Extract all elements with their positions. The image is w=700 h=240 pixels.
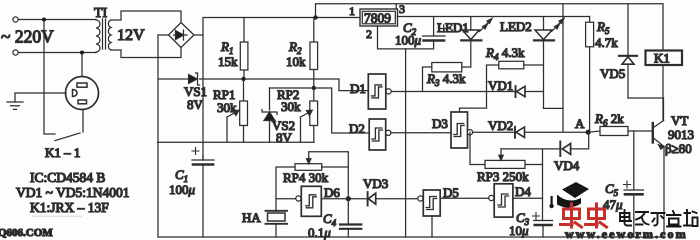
svg-text:RP3 250k: RP3 250k bbox=[477, 169, 529, 184]
svg-text:7809: 7809 bbox=[364, 11, 391, 26]
resistor R3 bbox=[423, 63, 471, 92]
svg-text:RP4 30k: RP4 30k bbox=[283, 170, 329, 185]
svg-text:VD5: VD5 bbox=[600, 66, 625, 81]
svg-text:30k: 30k bbox=[281, 99, 301, 114]
wire: socket top bbox=[81, 53, 83, 77]
terminal bottom bbox=[13, 50, 18, 55]
resistor R1 bbox=[240, 18, 248, 80]
diode VD1 bbox=[516, 86, 544, 97]
wire: DC+ column and top feed rail bbox=[203, 18, 360, 161]
svg-text:D4: D4 bbox=[515, 184, 531, 199]
resistor R2 bbox=[310, 18, 318, 89]
transistor VT 9013 bbox=[653, 98, 664, 237]
transformer core bbox=[102, 19, 104, 49]
switch K1-1 blade bbox=[55, 133, 80, 141]
svg-text:100μ: 100μ bbox=[169, 182, 196, 197]
wire: AC bottom line bbox=[18, 52, 96, 54]
svg-text:4.7k: 4.7k bbox=[595, 35, 618, 50]
svg-text:30k: 30k bbox=[217, 100, 237, 115]
potentiometer RP3 bbox=[470, 132, 543, 168]
resistor R4 bbox=[460, 61, 544, 112]
wire: D1 output line bbox=[391, 91, 515, 93]
wire: VD4 line / RP3 wiper line bbox=[501, 148, 560, 150]
gate D5 bbox=[418, 190, 489, 237]
wire: 7809 pin2 ground bbox=[378, 26, 434, 49]
capacitor C3 bbox=[533, 213, 553, 238]
svg-text:VD2: VD2 bbox=[488, 118, 513, 133]
svg-text:100μ: 100μ bbox=[395, 33, 422, 48]
watermark graduation cap bbox=[549, 182, 589, 208]
relay K1 bbox=[646, 51, 683, 122]
gate D4 bbox=[489, 184, 543, 217]
potentiometer RP2 bbox=[301, 88, 318, 142]
wire: pin3 stub to top rail bbox=[395, 4, 397, 9]
terminal top bbox=[13, 17, 18, 22]
svg-text:K1: K1 bbox=[654, 51, 670, 66]
wire: AC top line bbox=[18, 19, 96, 21]
svg-text:10μ: 10μ bbox=[509, 223, 529, 238]
watermark bug characters bbox=[561, 204, 607, 227]
svg-text:LED2: LED2 bbox=[500, 19, 532, 34]
svg-text:12V: 12V bbox=[117, 27, 145, 44]
svg-text:VD1: VD1 bbox=[488, 78, 513, 93]
svg-text:VD1 ~ VD5:1N4001: VD1 ~ VD5:1N4001 bbox=[16, 185, 130, 200]
LED1 bbox=[461, 17, 492, 68]
svg-text:VD4: VD4 bbox=[554, 158, 580, 173]
IC 7809 bbox=[360, 9, 398, 26]
wire: socket bottom to switch post bbox=[82, 110, 84, 133]
wire: branch up to unregulated top rail bbox=[316, 4, 664, 51]
svg-text:D3: D3 bbox=[432, 116, 448, 131]
resistor R5 bbox=[586, 17, 594, 133]
resistor R6 bbox=[588, 127, 652, 136]
svg-text:2: 2 bbox=[366, 27, 372, 41]
wire: secondary bottom to bridge bbox=[111, 48, 181, 58]
wire: C3 column bbox=[542, 149, 544, 221]
gate D3 bbox=[451, 112, 473, 148]
wire: ground drop to bottom rail bbox=[405, 49, 407, 237]
svg-text:Q606.COM: Q606.COM bbox=[0, 227, 53, 239]
svg-text:D2: D2 bbox=[349, 121, 365, 136]
wire: 220V branch to switch bbox=[44, 20, 55, 135]
wire: R2 bottom node line bbox=[270, 87, 314, 89]
wire: D2 output to D3 bbox=[391, 132, 451, 134]
node dot oscillator bbox=[346, 196, 351, 201]
potentiometer RP1 bbox=[227, 79, 248, 142]
svg-text:C5: C5 bbox=[605, 181, 619, 198]
node A bbox=[586, 130, 591, 135]
transformer T1 primary bbox=[96, 20, 100, 52]
svg-text:9013: 9013 bbox=[668, 127, 694, 142]
svg-text:1: 1 bbox=[349, 4, 355, 18]
capacitor C2 bbox=[423, 17, 448, 45]
wire: mid ground rail bbox=[158, 141, 315, 143]
svg-text:R6 2k: R6 2k bbox=[594, 111, 624, 128]
svg-text:A: A bbox=[575, 116, 585, 131]
svg-text:TI: TI bbox=[94, 6, 108, 21]
ground bbox=[7, 102, 23, 109]
buzzer HA bbox=[266, 211, 288, 237]
wire: bridge from LED2 column to VD2 line bbox=[544, 107, 564, 109]
wire: bridge right vertex to C1 column bbox=[194, 34, 203, 36]
wire: VS1 node line y=79 bbox=[158, 78, 188, 80]
gate D6 bbox=[276, 186, 348, 216]
svg-text:15k: 15k bbox=[218, 54, 238, 69]
wire: left rail bbox=[157, 35, 159, 237]
svg-text:8V: 8V bbox=[187, 97, 204, 112]
svg-text:IC:CD4584 B: IC:CD4584 B bbox=[30, 170, 105, 185]
wire: D3 output line to node A bbox=[473, 131, 515, 133]
svg-text:D6: D6 bbox=[324, 185, 340, 200]
svg-text:R4 4.3k: R4 4.3k bbox=[485, 45, 525, 62]
svg-text:K1 – 1: K1 – 1 bbox=[45, 145, 80, 160]
svg-text:0.1μ: 0.1μ bbox=[308, 225, 331, 240]
svg-text:www.eeworm.com: www.eeworm.com bbox=[565, 227, 688, 240]
gate D2 bbox=[369, 119, 391, 150]
svg-text:LED1: LED1 bbox=[437, 20, 469, 35]
transformer T1 secondary bbox=[108, 20, 111, 50]
diode VD4 bbox=[560, 132, 588, 156]
capacitor C1 bbox=[192, 148, 214, 238]
svg-text:R3 4.3k: R3 4.3k bbox=[426, 71, 466, 88]
svg-text:D5: D5 bbox=[443, 185, 459, 200]
wire: D5 output to VD3 bbox=[376, 198, 418, 200]
wire: bridge left vertex to left rail bbox=[158, 34, 169, 36]
wire: top rail drop to node bridge bbox=[562, 4, 564, 132]
wire: to D2 input bbox=[314, 88, 369, 133]
svg-text:R5: R5 bbox=[596, 19, 610, 36]
socket bbox=[66, 77, 99, 110]
svg-text:HA: HA bbox=[242, 210, 261, 225]
wire: secondary top to bridge bbox=[111, 11, 181, 22]
LED2 bbox=[534, 17, 564, 109]
zener VS1 bbox=[189, 73, 200, 85]
wire: socket left pin to ground bbox=[15, 93, 66, 102]
node dot R1 bottom bbox=[241, 77, 245, 81]
node junction at 315.5,17.5 bbox=[313, 15, 317, 19]
svg-text:β≥80: β≥80 bbox=[665, 141, 692, 156]
watermark text dianzi xiazaizhan bbox=[620, 210, 698, 227]
svg-text:~ 220V: ~ 220V bbox=[1, 27, 54, 47]
gate D1 bbox=[368, 74, 391, 109]
svg-text:K1:JRX – 13F: K1:JRX – 13F bbox=[30, 200, 109, 215]
diode VD5 bbox=[619, 4, 663, 98]
wire: bottom rail bbox=[158, 236, 664, 238]
svg-text:3: 3 bbox=[399, 2, 405, 16]
svg-text:10k: 10k bbox=[286, 54, 306, 69]
svg-text:D1: D1 bbox=[350, 81, 366, 96]
zener VS2 bbox=[262, 88, 277, 142]
diode VD3 bbox=[348, 192, 375, 206]
bridge rectifier bbox=[169, 23, 195, 48]
svg-text:VT: VT bbox=[671, 113, 688, 128]
svg-text:VD3: VD3 bbox=[363, 176, 388, 191]
diode VD2 bbox=[515, 127, 588, 138]
capacitor C5 bbox=[624, 131, 644, 237]
capacitor C4 bbox=[340, 199, 361, 237]
potentiometer RP4 bbox=[276, 152, 348, 212]
wire: 7809 output rail bbox=[398, 16, 590, 18]
